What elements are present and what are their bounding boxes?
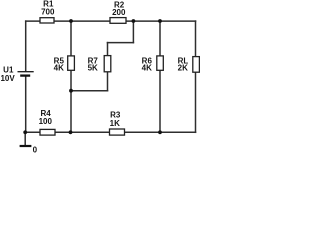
wire battery bottom xyxy=(25,76,27,132)
wire bottom rail right segment xyxy=(125,131,196,133)
battery U1 xyxy=(0,65,33,83)
wire RL top xyxy=(195,21,197,57)
wire RL bottom xyxy=(195,72,197,132)
wire R7 top xyxy=(107,43,109,56)
node junction top R5 xyxy=(69,19,73,23)
wire R7 jog horizontal xyxy=(108,42,134,44)
wire R6 top xyxy=(159,21,161,56)
wire R7 jog vertical from top rail xyxy=(132,21,134,42)
node junction mid R5-R7 xyxy=(69,89,73,93)
svg-text:0: 0 xyxy=(33,146,38,153)
resistor R3 xyxy=(110,111,125,136)
wire battery top xyxy=(25,21,27,71)
wire top rail right segment xyxy=(126,20,196,22)
node junction top R6 xyxy=(158,19,162,23)
wire ground stub xyxy=(24,132,26,146)
svg-text:700: 700 xyxy=(41,7,55,16)
svg-text:4K: 4K xyxy=(54,64,64,73)
svg-text:200: 200 xyxy=(112,8,126,17)
node junction top R7 branch xyxy=(132,19,136,23)
resistor R6 xyxy=(142,56,164,73)
node junction bottom R5 xyxy=(69,130,73,134)
wire bottom rail middle segment xyxy=(55,131,110,133)
svg-text:5K: 5K xyxy=(88,64,98,73)
wire mid connecting R7 bottom to R5 branch xyxy=(71,90,108,92)
resistor R1 xyxy=(40,0,55,23)
wire R5 top xyxy=(70,21,72,56)
svg-text:100: 100 xyxy=(39,117,53,126)
ground xyxy=(20,145,32,147)
wire R7 bottom xyxy=(107,72,109,91)
node junction bottom R6 xyxy=(158,130,162,134)
svg-text:4K: 4K xyxy=(142,64,152,73)
svg-text:1K: 1K xyxy=(110,119,120,128)
wire R6 bottom xyxy=(159,70,161,132)
svg-text:10V: 10V xyxy=(0,74,15,83)
wire top rail left segment xyxy=(26,20,40,22)
wire bottom rail left segment xyxy=(25,131,40,133)
resistor R5 xyxy=(54,56,75,73)
svg-text:2K: 2K xyxy=(178,64,188,73)
node junction bottom ground xyxy=(23,130,27,134)
resistor R4 xyxy=(39,109,55,135)
resistor R7 xyxy=(88,56,111,73)
wire R5 bottom xyxy=(70,70,72,132)
wire top rail middle segment xyxy=(54,20,110,22)
resistor R2 xyxy=(110,0,126,23)
resistor RL xyxy=(178,56,200,72)
